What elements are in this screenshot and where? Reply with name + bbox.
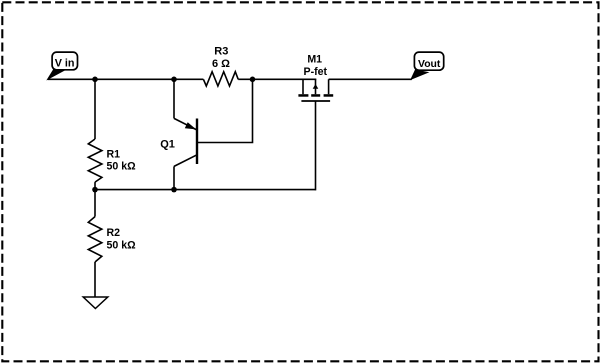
resistor R1 (88, 139, 136, 182)
wire R1 bottom (94, 182, 96, 190)
wire R2 top (94, 190, 96, 217)
wire Vin to R3 (48, 78, 204, 80)
wire Q1 base to R3 right node (197, 79, 253, 142)
label Vout (411, 52, 444, 79)
resistor R2 (88, 217, 136, 262)
node junction R3/M1/Q1 base (250, 77, 256, 83)
svg-text:50 kΩ: 50 kΩ (107, 160, 137, 172)
svg-text:V in: V in (55, 57, 75, 69)
svg-text:6 Ω: 6 Ω (212, 58, 230, 70)
wire R2 to ground (94, 262, 96, 297)
ground (83, 297, 108, 309)
svg-text:R3: R3 (214, 46, 228, 58)
wire Q1 collector (173, 166, 175, 189)
label Vin (47, 52, 77, 79)
wire M1 drain to Vout (329, 78, 412, 80)
svg-text:50 kΩ: 50 kΩ (107, 240, 137, 252)
wire M1 gate stem (315, 101, 317, 190)
svg-text:M1: M1 (307, 53, 322, 65)
svg-text:Vout: Vout (418, 59, 441, 70)
svg-text:P-fet: P-fet (304, 66, 328, 78)
node junction R1/R2/gate net (92, 187, 98, 193)
node junction Vin/Q1 emitter (171, 77, 177, 83)
resistor R3 (203, 46, 238, 87)
wire R3 to M1 source (238, 78, 316, 80)
wire R1 top (94, 79, 96, 139)
node junction Q1 collector/gate net (171, 187, 177, 193)
transistor Q1 (160, 118, 197, 166)
wire Q1 emitter (173, 79, 175, 118)
svg-text:R2: R2 (107, 227, 121, 239)
svg-text:R1: R1 (107, 148, 121, 160)
svg-text:Q1: Q1 (160, 139, 175, 151)
wire gate net horizontal (95, 189, 316, 191)
node junction Vin/R1 (92, 77, 98, 83)
mosfet M1 (298, 53, 333, 101)
